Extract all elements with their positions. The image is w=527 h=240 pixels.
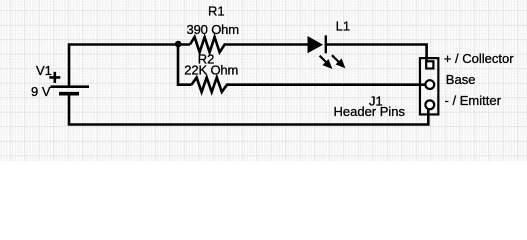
svg-text:V1: V1 (36, 63, 52, 78)
svg-text:R1: R1 (208, 4, 225, 19)
svg-text:+ / Collector: + / Collector (444, 51, 514, 66)
svg-text:Header Pins: Header Pins (334, 104, 406, 119)
svg-text:22K Ohm: 22K Ohm (184, 63, 238, 78)
svg-text:390 Ohm: 390 Ohm (187, 22, 239, 37)
svg-text:9 V: 9 V (31, 84, 51, 99)
svg-text:Base: Base (446, 72, 476, 87)
svg-text:L1: L1 (336, 18, 350, 33)
svg-text:- / Emitter: - / Emitter (445, 93, 502, 108)
